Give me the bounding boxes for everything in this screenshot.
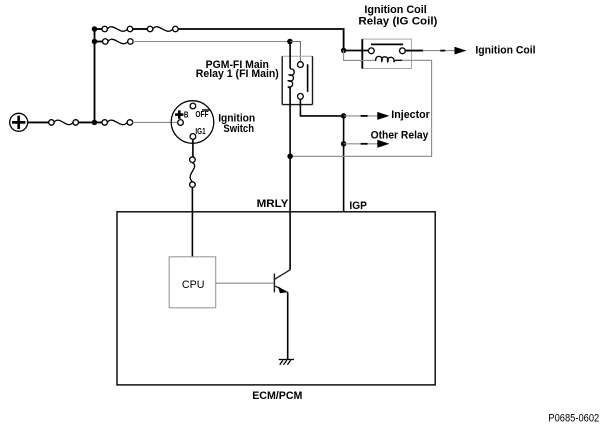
- node top line 1: [92, 26, 98, 32]
- fuse F4: [147, 26, 178, 32]
- coil L2 exit wire: [395, 59, 402, 61]
- wire branch to relay contact (gray): [290, 42, 301, 62]
- svg-text:MRLY: MRLY: [257, 198, 289, 210]
- wire IG relay output: [405, 50, 423, 52]
- svg-text:ECM/PCM: ECM/PCM: [252, 390, 302, 402]
- svg-text:Switch: Switch: [223, 123, 254, 135]
- fuse F3: [102, 26, 133, 32]
- relay K2 Ignition Coil Relay box: [362, 39, 411, 68]
- node top line 2: [92, 39, 98, 45]
- coil L2 (IG relay coil) wire left (gray): [344, 50, 376, 60]
- arrow to Other Relay: [344, 140, 390, 148]
- svg-text:Relay (IG Coil): Relay (IG Coil): [358, 15, 437, 27]
- wire top line 1 with corner to IG relay: [95, 29, 344, 48]
- svg-text:CPU: CPU: [182, 279, 205, 291]
- wire MRLY into ECM: [289, 156, 291, 269]
- wire MRLY vertical upper: [289, 42, 291, 69]
- transistor Q1: [274, 270, 290, 293]
- node IG relay feed: [341, 48, 347, 54]
- coil L1 (PGM-FI relay coil): [288, 69, 295, 88]
- contact circles: [368, 48, 374, 54]
- svg-text:IGP: IGP: [349, 200, 367, 212]
- fuse F6: [190, 157, 196, 188]
- node injector branch: [341, 113, 347, 119]
- wire battery to fuse: [27, 121, 49, 123]
- wire IG1 to fuse: [192, 139, 194, 157]
- label +B: [175, 110, 188, 120]
- wire fuse to CPU: [191, 187, 193, 256]
- wire emitter to ground: [287, 292, 289, 359]
- battery B+: [10, 113, 28, 131]
- relay K1 PGM-FI Main box: [282, 56, 312, 104]
- node battery line junction: [92, 120, 98, 126]
- wire fuse F5 to relay junction (gray): [133, 41, 290, 43]
- ground: [279, 360, 294, 365]
- wire to other relay node: [343, 116, 345, 144]
- svg-text:P0685-0602: P0685-0602: [548, 412, 599, 424]
- svg-text:Ignition Coil: Ignition Coil: [364, 4, 426, 16]
- contact bar: [371, 43, 403, 45]
- ECM/PCM box: [117, 212, 435, 385]
- node MRLY / coil return: [287, 154, 293, 160]
- bar over OFF: [202, 109, 211, 110]
- wire fuse to junction: [78, 121, 102, 123]
- wire fuse F2 to ignition switch +B (gray): [133, 121, 178, 123]
- wire from relay output to injector node: [300, 99, 343, 116]
- CPU box U1: [169, 257, 216, 308]
- relay blade: [307, 64, 309, 92]
- fuse F1: [49, 120, 79, 126]
- fuse F2: [102, 120, 133, 126]
- wire coil return (gray) right and down to MRLY: [290, 60, 432, 156]
- wire top line 2 (to PGM-FI relay): [95, 41, 103, 43]
- node PGM-FI relay feed: [287, 39, 293, 45]
- svg-text:Injector: Injector: [391, 109, 430, 121]
- arrow to Ignition Coil: [423, 47, 466, 55]
- wire vertical bus left: [94, 29, 96, 122]
- wire CPU to transistor base (gray): [216, 282, 274, 284]
- arrow to Injector: [344, 112, 390, 120]
- wire MRLY vertical lower: [289, 87, 291, 157]
- node other relay branch: [341, 141, 347, 147]
- wire IGP vertical: [343, 144, 345, 212]
- ignition switch SW1: [171, 101, 214, 144]
- contact circles of PGM-FI relay: [298, 62, 304, 68]
- svg-text:Other Relay: Other Relay: [371, 129, 429, 141]
- svg-text:IG1: IG1: [195, 126, 206, 136]
- emitter arrowhead: [278, 286, 287, 293]
- fuse F5: [103, 39, 134, 45]
- wire to IG relay contact: [344, 50, 369, 52]
- svg-text:Ignition Coil: Ignition Coil: [475, 44, 535, 56]
- svg-text:B: B: [184, 110, 189, 120]
- svg-text:Relay 1 (FI Main): Relay 1 (FI Main): [196, 68, 279, 80]
- coil L2 loops: [376, 56, 395, 62]
